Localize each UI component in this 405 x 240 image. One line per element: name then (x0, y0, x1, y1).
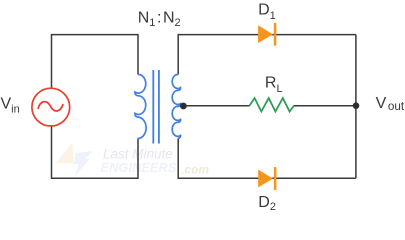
svg-text:.com: .com (181, 162, 209, 176)
diode D2 (258, 167, 276, 190)
node: transformer center tap (180, 103, 187, 110)
wire: center tap to resistor left (183, 105, 249, 107)
svg-text:N1:N2: N1:N2 (138, 9, 181, 29)
transformer core (153, 70, 159, 144)
wire: primary loop bottom (source bottom to transformer primary bottom) (52, 126, 139, 178)
diode D1 (258, 23, 276, 46)
wire: right rail (Vout) (355, 35, 357, 179)
resistor RL zigzag (249, 98, 294, 111)
wire: resistor right to right rail (294, 105, 356, 107)
wire: secondary top (transformer top to D1 to right rail) (178, 35, 356, 75)
wire: secondary bottom (transformer bottom to D2 to right rail) (178, 138, 356, 178)
watermark logo bolt (56, 143, 93, 177)
transformer secondary winding (right coil) (172, 74, 180, 138)
ac source Vin (32, 88, 70, 126)
transformer primary winding (left coil) (135, 74, 146, 138)
node: Vout junction on right rail (353, 102, 360, 109)
wire: primary loop top (source top to transformer primary top) (52, 35, 139, 89)
